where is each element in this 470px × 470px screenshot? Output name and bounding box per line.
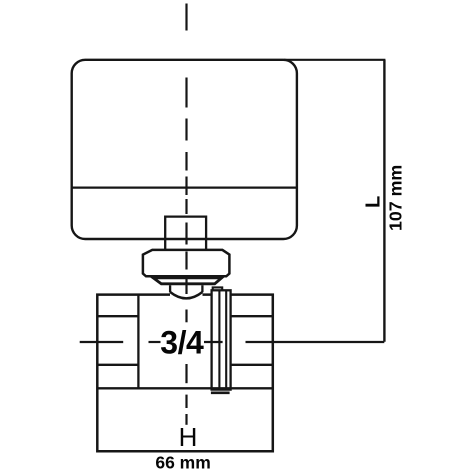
- svg-text:H: H: [179, 422, 198, 452]
- svg-text:66 mm: 66 mm: [155, 453, 210, 470]
- svg-text:3/4: 3/4: [160, 324, 204, 360]
- svg-text:L: L: [362, 196, 384, 208]
- svg-text:107 mm: 107 mm: [385, 165, 405, 231]
